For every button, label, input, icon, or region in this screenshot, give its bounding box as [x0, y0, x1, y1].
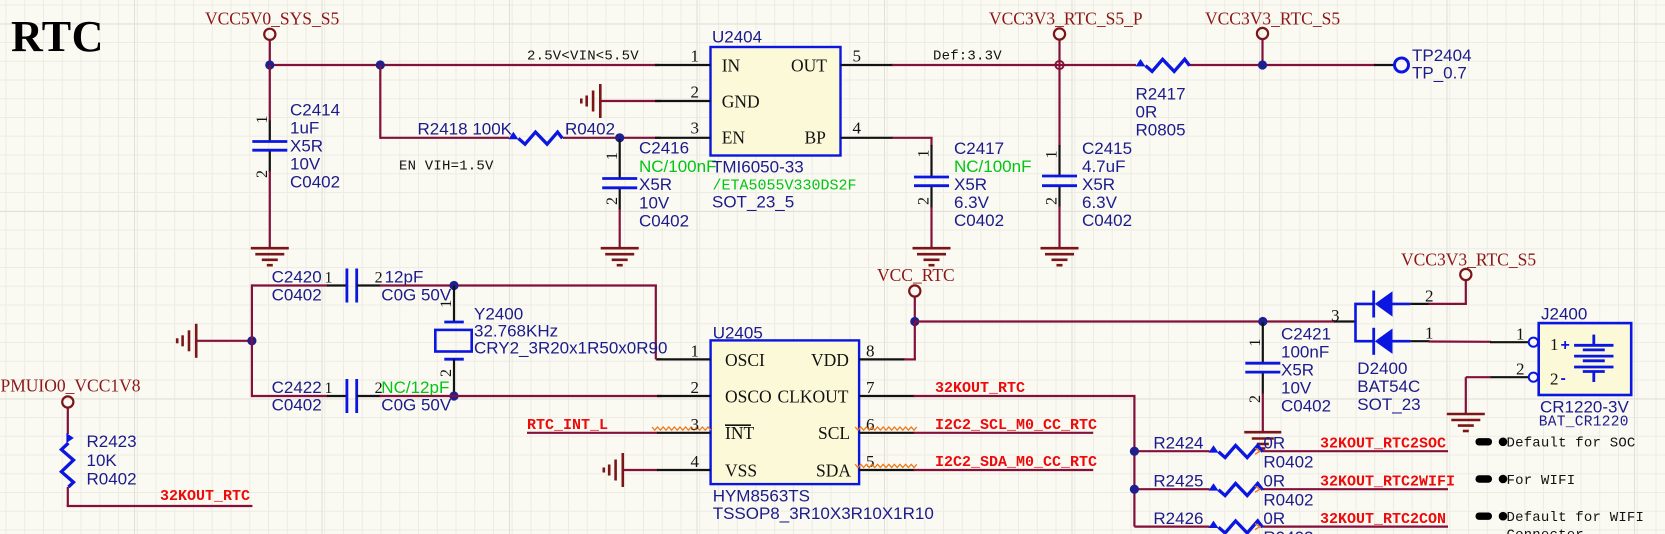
capacitor C2422 pin 1 stub: [327, 395, 347, 397]
svg-text:OSCO: OSCO: [725, 387, 772, 407]
power port VCC3V3_RTC_S5 label: [1205, 9, 1340, 29]
wire C2416 to ground: [619, 209, 621, 249]
svg-text:CLKOUT: CLKOUT: [778, 387, 849, 407]
capacitor C2422 pin 2 stub: [357, 395, 381, 397]
diode D2400 pin number 3: [1331, 306, 1340, 325]
label C2422 value NC/12pF: [381, 378, 449, 397]
U2405 pin number 1: [691, 341, 700, 360]
junction R2425: [1130, 485, 1139, 494]
capacitor C2416 pin 2 stub: [619, 189, 621, 210]
U2405 pin name VSS: [725, 460, 757, 480]
svg-text:2: 2: [691, 83, 700, 102]
label C2422 footprint: [272, 396, 322, 415]
svg-text:D2400: D2400: [1357, 359, 1407, 378]
svg-text:1: 1: [325, 270, 333, 287]
connector J2400 body: [1539, 323, 1632, 395]
svg-text:R0805: R0805: [1136, 121, 1186, 140]
svg-text:2: 2: [1247, 395, 1264, 403]
wire R2426 row: [1134, 525, 1448, 527]
capacitor C2414: [252, 142, 287, 151]
svg-text:3: 3: [1331, 306, 1340, 325]
svg-text:BAT_CR1220: BAT_CR1220: [1539, 415, 1629, 431]
svg-text:4.7uF: 4.7uF: [1082, 157, 1125, 176]
label C2420 value 12pF: [385, 268, 424, 287]
svg-text:0R: 0R: [1136, 103, 1158, 122]
power port VCC5V0_SYS_S5 label: [205, 9, 339, 29]
U2405 pin number 5: [866, 452, 875, 471]
label R2425 0R: [1263, 471, 1285, 490]
junction at EN branch: [376, 60, 385, 69]
svg-text:32KOUT_RTC2CON: 32KOUT_RTC2CON: [1320, 511, 1446, 528]
label Y2400 values: [474, 305, 523, 324]
label U2405 footprint TSSOP8: [713, 504, 934, 523]
junction R2424: [1130, 447, 1139, 456]
junction VCC_RTC: [910, 317, 919, 326]
label U2405 part HYM8563TS: [713, 487, 810, 506]
svg-text:10K: 10K: [87, 451, 118, 470]
wire ground to VSS: [623, 469, 658, 471]
label U2404 designator: [712, 28, 762, 47]
svg-text:4: 4: [691, 452, 700, 471]
svg-text:IN: IN: [722, 56, 741, 76]
capacitor C2421 pin 1 stub: [1262, 323, 1264, 364]
wire OSCI rail left: [252, 284, 328, 286]
svg-text:X5R: X5R: [954, 175, 987, 194]
svg-text:PMUIO0_VCC1V8: PMUIO0_VCC1V8: [1, 376, 141, 396]
label R2417 values: [1136, 85, 1186, 104]
svg-text:1uF: 1uF: [290, 119, 319, 138]
svg-text:C2415: C2415: [1082, 139, 1132, 158]
U2404 pin name OUT: [791, 56, 827, 76]
svg-text:2.5V<VIN<5.5V: 2.5V<VIN<5.5V: [527, 49, 639, 65]
label R2425 R0402: [1263, 491, 1313, 510]
note EN VIH=1.5V: [399, 159, 494, 175]
svg-text:5: 5: [853, 47, 862, 66]
svg-text:1: 1: [1550, 335, 1559, 354]
net label 32KOUT_RTC left: [160, 488, 250, 505]
power port VCC3V3_RTC_S5: [1257, 28, 1268, 39]
junction crystal pin1: [449, 281, 458, 290]
svg-text:X5R: X5R: [290, 137, 323, 156]
svg-text:C2416: C2416: [639, 139, 689, 158]
svg-text:R0402: R0402: [1263, 528, 1313, 534]
U2405 pin 5 SDA: [859, 469, 914, 471]
wire pin1 to J2400: [1429, 340, 1492, 342]
U2404 pin 1 IN: [655, 64, 711, 66]
svg-text:R2426: R2426: [1153, 509, 1203, 528]
wire R2418 to EN pin: [563, 137, 661, 139]
svg-text:Default for WIFI: Default for WIFI: [1507, 510, 1645, 526]
svg-text:C2421: C2421: [1281, 325, 1331, 344]
resistor R2417: [1136, 59, 1190, 71]
svg-text:1: 1: [691, 47, 700, 66]
svg-text:C0402: C0402: [1281, 397, 1331, 416]
wire VCC3V3_RTC_S5_P stub: [1058, 40, 1060, 65]
wire C2422 to OSCO pin: [380, 395, 662, 397]
note Def:3.3V: [933, 49, 1002, 65]
svg-text:R0402: R0402: [1263, 491, 1313, 510]
crystal Y2400 pin number 2: [438, 369, 455, 377]
label R2423 values: [87, 432, 137, 451]
svg-text:C2420: C2420: [272, 268, 322, 287]
power port VCC3V3_RTC_S5_P: [1054, 28, 1065, 39]
wire C2415 branch down: [1058, 65, 1060, 146]
power port VCC_RTC label: [877, 265, 955, 285]
U2404 pin name BP: [805, 128, 827, 148]
svg-text:2: 2: [1550, 370, 1559, 389]
svg-text:TMI6050-33: TMI6050-33: [712, 158, 804, 177]
wire OUT rail: [892, 64, 1375, 66]
note text Default for WIFI: [1507, 510, 1645, 526]
wire pin2 to VCC3V3_RTC_S5 port: [1429, 280, 1467, 304]
diode pin number 1: [1425, 324, 1434, 343]
label C2422: [272, 378, 322, 397]
svg-text:0R: 0R: [1263, 471, 1285, 490]
note 2.5V<VIN<5.5V: [527, 49, 639, 65]
svg-text:For WIFI: For WIFI: [1507, 473, 1576, 489]
capacitor C2420 pin 1 stub: [327, 284, 347, 286]
capacitor C2420 pin 2 stub: [357, 284, 381, 286]
capacitor C2420 pin number 1: [325, 270, 333, 287]
label BAT_CR1220: [1539, 415, 1629, 431]
label C2420 footprint: [272, 286, 322, 305]
label R2418 100K: [418, 120, 513, 139]
U2404 pin number 4: [853, 119, 862, 138]
net label I2C2_SCL_M0_CC_RTC: [935, 417, 1097, 434]
svg-text:1: 1: [1044, 151, 1061, 159]
svg-text:-: -: [1561, 370, 1566, 387]
battery symbol: [1574, 335, 1613, 382]
note text Default for SOC: [1507, 436, 1636, 452]
U2404 pin name EN: [722, 128, 746, 148]
resistor R2425: [1209, 483, 1263, 495]
junction at C2416 branch: [615, 133, 624, 142]
svg-text:1: 1: [1247, 339, 1264, 347]
U2405 pin number 6: [866, 415, 875, 434]
svg-text:C0402: C0402: [954, 211, 1004, 230]
svg-text:1: 1: [438, 300, 455, 308]
svg-text:EN VIH=1.5V: EN VIH=1.5V: [399, 159, 494, 175]
label R2426: [1153, 509, 1203, 528]
label TP2404: [1412, 46, 1472, 65]
diode D2400 bottom (pin 1): [1374, 328, 1411, 355]
capacitor C2417 pin number 2: [916, 197, 933, 205]
svg-text:32KOUT_RTC: 32KOUT_RTC: [935, 380, 1025, 397]
wire EN branch horizontal to R2418: [380, 137, 509, 139]
U2404 pin 4 BP: [841, 137, 894, 139]
U2405 pin 4 VSS: [657, 469, 711, 471]
svg-text:2: 2: [438, 369, 455, 377]
svg-text:6: 6: [866, 415, 875, 434]
capacitor C2414 pin number 2: [254, 170, 271, 178]
wire R2424 row: [1134, 450, 1448, 452]
title RTC: [11, 12, 104, 61]
wire crystal left vertical: [251, 284, 253, 397]
capacitor C2422 pin number 1: [325, 380, 333, 397]
ground below C2417: [913, 248, 951, 265]
junction crystal ground: [247, 336, 256, 345]
svg-text:VCC3V3_RTC_S5: VCC3V3_RTC_S5: [1205, 9, 1340, 29]
svg-text:1: 1: [1516, 325, 1525, 344]
U2405 pin name VDD: [811, 350, 849, 370]
svg-text:6.3V: 6.3V: [1082, 193, 1118, 212]
wire VCC3V3_RTC_S5 stub: [1261, 39, 1263, 65]
note text Connecter: [1507, 528, 1584, 534]
capacitor C2417 pin 1 stub: [930, 145, 932, 177]
svg-text:1: 1: [916, 150, 933, 158]
note marker dash Default for SOC: [1476, 438, 1493, 445]
svg-text:C0402: C0402: [639, 212, 689, 231]
label U2404 part TMI6050-33: [712, 158, 804, 177]
svg-text:GND: GND: [722, 92, 760, 112]
squiggle R2426: [1255, 524, 1260, 530]
wire C2417 to ground: [930, 207, 932, 249]
crystal Y2400: [435, 322, 471, 359]
wire ground to crystal net: [196, 340, 253, 342]
capacitor C2417: [914, 177, 949, 186]
op-amp U2404 body: [711, 47, 841, 156]
svg-text:U2405: U2405: [713, 324, 763, 343]
U2405 pin name CLKOUT: [778, 387, 849, 407]
label C2422 C0G 50V: [381, 396, 452, 415]
capacitor C2415 pin number 1: [1044, 151, 1061, 159]
svg-text:+: +: [1561, 337, 1570, 354]
svg-text:1: 1: [691, 341, 700, 360]
svg-text:EN: EN: [722, 128, 746, 148]
ground at VSS pin: [604, 453, 623, 487]
svg-text:NC/12pF: NC/12pF: [381, 378, 449, 397]
net label I2C2_SDA_M0_CC_RTC: [935, 454, 1097, 471]
power port VCC3V3_RTC_S5 label bottom: [1401, 250, 1536, 270]
svg-text:TP2404: TP2404: [1412, 46, 1472, 65]
svg-text:R0402: R0402: [565, 120, 615, 139]
diode pin 2 lead: [1410, 303, 1429, 305]
svg-text:10V: 10V: [639, 193, 670, 212]
label C2415 values: [1082, 139, 1132, 158]
svg-text:I2C2_SCL_M0_CC_RTC: I2C2_SCL_M0_CC_RTC: [935, 417, 1097, 434]
svg-text:J2400: J2400: [1541, 305, 1587, 324]
wire C2414 branch down: [269, 65, 271, 121]
U2405 pin 3 INT: [657, 432, 711, 434]
U2404 pin number 3: [691, 119, 700, 138]
capacitor C2421 pin number 1: [1247, 339, 1264, 347]
crystal Y2400 pin 2 stub: [453, 359, 455, 396]
U2404 pin 3 EN: [655, 137, 711, 139]
wire R2423 down and right: [67, 487, 253, 506]
svg-text:RTC_INT_L: RTC_INT_L: [527, 417, 608, 434]
U2405 pin name OSCI: [725, 350, 765, 370]
wire VCC_RTC stub: [914, 297, 916, 322]
label C2417 values: [954, 139, 1004, 158]
label R2424 R0402: [1263, 453, 1313, 472]
squiggle SCL: [855, 427, 917, 430]
capacitor C2415 pin 1 stub: [1058, 145, 1060, 176]
svg-text:RTC: RTC: [11, 12, 104, 61]
J2400 pin number 1: [1516, 325, 1525, 344]
U2405 pin number 7: [866, 378, 875, 397]
svg-text:X5R: X5R: [1281, 361, 1314, 380]
U2404 pin 2 GND: [655, 100, 711, 102]
svg-text:C2414: C2414: [290, 101, 340, 120]
net label 32KOUT_RTC2SOC: [1320, 435, 1446, 452]
svg-text:R2417: R2417: [1136, 85, 1186, 104]
label D2400 values: [1357, 359, 1407, 378]
wire SDA net: [914, 469, 1094, 471]
note marker bullet Default for SOC: [1499, 438, 1508, 447]
crystal Y2400 pin number 1: [438, 300, 455, 308]
J2400 pin 1 circle: [1529, 338, 1538, 347]
svg-text:8: 8: [866, 341, 875, 360]
svg-text:0R: 0R: [1263, 509, 1285, 528]
label C2421 values: [1281, 325, 1331, 344]
J2400 pin number 2: [1516, 360, 1525, 379]
label R2426 0R: [1263, 509, 1285, 528]
svg-text:Connecter: Connecter: [1507, 528, 1584, 534]
J2400 pin 2 lead: [1490, 376, 1529, 378]
capacitor C2414 pin 2 stub: [269, 152, 271, 173]
svg-text:1: 1: [325, 380, 333, 397]
wire OSCO rail left: [252, 395, 328, 397]
ground below J2400: [1447, 414, 1485, 431]
svg-text:10V: 10V: [1281, 379, 1312, 398]
svg-text:1: 1: [604, 152, 621, 160]
svg-text:NC/100nF: NC/100nF: [954, 157, 1031, 176]
net label 32KOUT_RTC2CON: [1320, 511, 1446, 528]
note marker dash For WIFI: [1476, 475, 1493, 482]
testpoint TP2404 pin: [1374, 64, 1395, 66]
svg-text:CRY2_3R20x1R50x0R90: CRY2_3R20x1R50x0R90: [474, 339, 667, 358]
diode pin 1 lead: [1410, 340, 1429, 342]
note text For WIFI: [1507, 473, 1576, 489]
svg-text:C0402: C0402: [290, 173, 340, 192]
U2405 pin name OSCO: [725, 387, 772, 407]
squiggle R2424: [1255, 448, 1260, 454]
svg-text:C2417: C2417: [954, 139, 1004, 158]
J2400 pin 1 lead: [1490, 341, 1529, 343]
svg-text:2: 2: [254, 170, 271, 178]
U2405 pin 7 CLKOUT: [859, 395, 914, 397]
capacitor C2416 pin number 2: [604, 197, 621, 205]
U2405 pin number 2: [691, 378, 700, 397]
diode pin number 2: [1425, 287, 1434, 306]
capacitor C2416 pin number 1: [604, 152, 621, 160]
junction C2421 branch: [1258, 317, 1267, 326]
wire R2425 row: [1134, 488, 1448, 490]
diode D2400 common bus: [1356, 304, 1374, 341]
ground left of crystal: [177, 324, 196, 358]
power port VCC_RTC: [909, 285, 920, 296]
svg-text:10V: 10V: [290, 155, 321, 174]
svg-text:SDA: SDA: [816, 460, 851, 480]
capacitor C2421: [1245, 363, 1280, 372]
svg-text:VCC_RTC: VCC_RTC: [877, 265, 955, 285]
svg-text:BAT54C: BAT54C: [1357, 377, 1420, 396]
capacitor C2414 pin number 1: [254, 116, 271, 124]
label TP_0.7: [1412, 64, 1467, 83]
svg-text:32KOUT_RTC: 32KOUT_RTC: [160, 488, 250, 505]
resistor R2424: [1209, 445, 1263, 457]
capacitor C2420 pin number 2: [375, 270, 383, 287]
svg-text:C2422: C2422: [272, 378, 322, 397]
squiggle R2425: [1255, 486, 1260, 492]
U2404 pin name GND: [722, 92, 760, 112]
capacitor C2417 pin 2 stub: [930, 187, 932, 208]
svg-text:2: 2: [691, 378, 700, 397]
power port PMUIO0_VCC1V8 label: [1, 376, 141, 396]
capacitor C2415 pin number 2: [1044, 197, 1061, 205]
wire CLKOUT net: [914, 396, 1136, 527]
power port VCC3V3_RTC_S5 bottom: [1460, 269, 1471, 280]
resistor R2418: [508, 132, 562, 144]
svg-text:2: 2: [1044, 197, 1061, 205]
U2405 pin 8 VDD: [859, 358, 905, 360]
wire VCC5V0 port stub: [269, 40, 271, 66]
U2405 pin 1 OSCI: [657, 358, 711, 360]
svg-text:SOT_23: SOT_23: [1357, 395, 1420, 414]
wire C2415 to ground: [1058, 206, 1060, 249]
U2404 pin 5 OUT: [841, 64, 894, 66]
svg-text:R2423: R2423: [87, 432, 137, 451]
resistor R2426: [1209, 521, 1263, 533]
label J2400 designator: [1541, 305, 1587, 324]
svg-text:C0G 50V: C0G 50V: [381, 396, 452, 415]
wire C2420 to OSCI corner: [380, 286, 662, 360]
svg-text:32KOUT_RTC2WIFI: 32KOUT_RTC2WIFI: [1320, 473, 1455, 490]
wire C2414 to ground: [269, 171, 271, 249]
label C2414 values: [290, 101, 340, 120]
power port VCC3V3_RTC_S5_P label: [989, 9, 1143, 29]
ground below C2415: [1041, 248, 1079, 265]
svg-text:VDD: VDD: [811, 350, 849, 370]
op-amp U2405 body: [711, 340, 860, 484]
svg-text:1: 1: [1425, 324, 1434, 343]
U2405 pin number 3: [691, 415, 700, 434]
svg-text:100nF: 100nF: [1281, 343, 1329, 362]
capacitor C2415: [1042, 176, 1077, 186]
squiggle INT: [652, 427, 711, 430]
svg-text:2: 2: [1425, 287, 1434, 306]
U2405 pin name SDA: [816, 460, 851, 480]
U2405 pin number 4: [691, 452, 700, 471]
squiggle SDA: [855, 464, 917, 467]
label U2404 alt part /ETA5055V330DS2F: [713, 178, 857, 195]
U2405 pin 2 OSCO: [657, 395, 711, 397]
label R2426 R0402: [1263, 528, 1313, 534]
cross junction at VCC3V3_RTC_S5_P: [1055, 61, 1063, 69]
svg-text:R2424: R2424: [1153, 433, 1203, 452]
label U2404 footprint SOT_23_5: [712, 193, 794, 212]
svg-text:X5R: X5R: [1082, 175, 1115, 194]
U2404 pin number 5: [853, 47, 862, 66]
svg-text:C0402: C0402: [272, 396, 322, 415]
label U2405 designator: [713, 324, 763, 343]
U2405 pin 6 SCL: [859, 432, 914, 434]
svg-text:R2425: R2425: [1153, 471, 1203, 490]
wire SCL net: [914, 432, 1094, 434]
testpoint TP2404: [1395, 58, 1409, 72]
power port PMUIO0_VCC1V8: [62, 396, 73, 407]
J2400 pin 2 circle: [1529, 373, 1538, 382]
svg-text:C0402: C0402: [272, 286, 322, 305]
wire EN branch down: [379, 65, 381, 139]
net label 32KOUT_RTC2WIFI: [1320, 473, 1455, 490]
label R2418 footprint R0402: [565, 120, 615, 139]
svg-text:C0402: C0402: [1082, 211, 1132, 230]
label R2424: [1153, 433, 1203, 452]
wire VDD rail: [904, 322, 1335, 360]
svg-text:NC/100nF: NC/100nF: [639, 157, 716, 176]
wire J2400 pin2 to ground: [1466, 377, 1491, 415]
